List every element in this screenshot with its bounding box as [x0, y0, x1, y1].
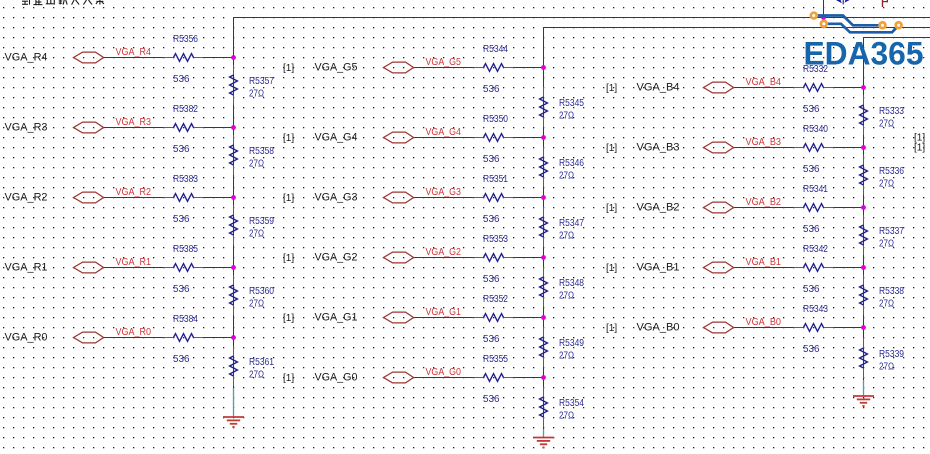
svg-text:VGA_G2: VGA_G2 [426, 246, 462, 258]
svg-text:VGA_G3: VGA_G3 [426, 186, 462, 198]
svg-text:R5353: R5353 [483, 234, 508, 245]
svg-text:27Ω: 27Ω [879, 362, 894, 373]
svg-text:R5338: R5338 [879, 286, 904, 297]
svg-text:536: 536 [483, 84, 500, 95]
svg-text:536: 536 [173, 144, 190, 155]
svg-text:R5346: R5346 [559, 158, 584, 169]
svg-text:536: 536 [803, 164, 820, 175]
svg-text:27Ω: 27Ω [559, 111, 574, 122]
svg-text:VGA_R4: VGA_R4 [116, 46, 152, 58]
svg-text:536: 536 [173, 354, 190, 365]
svg-text:27Ω: 27Ω [249, 229, 264, 240]
svg-text:R5351: R5351 [483, 174, 508, 185]
svg-text:[1]: [1] [283, 313, 294, 324]
svg-text:536: 536 [483, 154, 500, 165]
svg-text:VGA_G0: VGA_G0 [426, 366, 462, 378]
svg-text:[1]: [1] [606, 203, 617, 214]
svg-text:R5341: R5341 [803, 184, 828, 195]
svg-text:VGA_R3: VGA_R3 [5, 121, 48, 133]
svg-text:[1]: [1] [283, 373, 294, 384]
svg-text:536: 536 [173, 214, 190, 225]
svg-text:27Ω: 27Ω [559, 231, 574, 242]
svg-text:[1]: [1] [606, 83, 617, 94]
svg-text:27Ω: 27Ω [879, 179, 894, 190]
svg-text:VGA_B0: VGA_B0 [637, 321, 680, 333]
svg-text:R5340: R5340 [803, 124, 828, 135]
svg-text:R5342: R5342 [803, 244, 828, 255]
svg-text:27Ω: 27Ω [249, 89, 264, 100]
svg-text:[1]: [1] [914, 143, 925, 154]
svg-text:27Ω: 27Ω [559, 171, 574, 182]
svg-text:VGA_G1: VGA_G1 [315, 311, 358, 323]
svg-text:VGA_R1: VGA_R1 [5, 261, 48, 273]
svg-text:VGA_R3: VGA_R3 [116, 116, 152, 128]
svg-text:R5336: R5336 [879, 166, 904, 177]
svg-text:[1]: [1] [283, 253, 294, 264]
svg-text:R5339: R5339 [879, 349, 904, 360]
svg-text:R5348: R5348 [559, 278, 584, 289]
svg-text:536: 536 [803, 224, 820, 235]
svg-text:R5384: R5384 [173, 314, 198, 325]
svg-text:R5350: R5350 [483, 114, 508, 125]
svg-text:VGA_R1: VGA_R1 [116, 256, 152, 268]
svg-text:VGA_R0: VGA_R0 [5, 331, 48, 343]
svg-text:[1]: [1] [606, 263, 617, 274]
svg-text:27Ω: 27Ω [559, 411, 574, 422]
svg-text:VGA_B4: VGA_B4 [746, 76, 782, 88]
svg-text:R5382: R5382 [173, 104, 198, 115]
svg-text:R5358: R5358 [249, 146, 274, 157]
svg-text:R5383: R5383 [173, 174, 198, 185]
svg-text:VGA_R4: VGA_R4 [5, 51, 48, 63]
svg-text:VGA_B1: VGA_B1 [746, 256, 782, 268]
svg-text:R5360: R5360 [249, 286, 274, 297]
svg-text:R5359: R5359 [249, 216, 274, 227]
svg-text:27Ω: 27Ω [879, 299, 894, 310]
svg-text:R5352: R5352 [483, 294, 508, 305]
svg-text:VGA_G0: VGA_G0 [315, 371, 358, 383]
svg-text:R5354: R5354 [559, 398, 584, 409]
svg-text:R5356: R5356 [173, 34, 198, 45]
svg-text:VGA_B4: VGA_B4 [637, 81, 680, 93]
svg-text:[1]: [1] [283, 193, 294, 204]
svg-text:VGA_B2: VGA_B2 [746, 196, 782, 208]
svg-text:536: 536 [483, 394, 500, 405]
svg-text:[1]: [1] [606, 143, 617, 154]
svg-text:536: 536 [803, 344, 820, 355]
svg-text:VGA_G4: VGA_G4 [426, 126, 462, 138]
svg-text:R5332: R5332 [803, 64, 828, 75]
svg-text:536: 536 [803, 104, 820, 115]
svg-text:R5357: R5357 [249, 76, 274, 87]
svg-text:27Ω: 27Ω [249, 299, 264, 310]
svg-text:VGA_B3: VGA_B3 [746, 136, 782, 148]
svg-text:VGA_G1: VGA_G1 [426, 306, 462, 318]
svg-text:VGA_G5: VGA_G5 [315, 61, 358, 73]
svg-text:R5385: R5385 [173, 244, 198, 255]
svg-text:VGA_G5: VGA_G5 [426, 56, 462, 68]
svg-text:[1]: [1] [283, 133, 294, 144]
svg-text:VGA_G4: VGA_G4 [315, 131, 358, 143]
svg-text:R5344: R5344 [483, 44, 508, 55]
svg-text:27Ω: 27Ω [879, 119, 894, 130]
svg-text:27Ω: 27Ω [559, 291, 574, 302]
svg-text:R5345: R5345 [559, 98, 584, 109]
svg-text:536: 536 [173, 284, 190, 295]
svg-text:VGA_G2: VGA_G2 [315, 251, 358, 263]
svg-text:R5333: R5333 [879, 106, 904, 117]
svg-text:R5349: R5349 [559, 338, 584, 349]
svg-text:27Ω: 27Ω [879, 239, 894, 250]
svg-text:VGA_R2: VGA_R2 [5, 191, 48, 203]
svg-text:536: 536 [483, 334, 500, 345]
svg-text:27Ω: 27Ω [559, 351, 574, 362]
svg-text:VGA_B3: VGA_B3 [637, 141, 680, 153]
svg-text:R5343: R5343 [803, 304, 828, 315]
svg-text:536: 536 [483, 274, 500, 285]
svg-text:27Ω: 27Ω [249, 370, 264, 381]
svg-text:VGA_G3: VGA_G3 [315, 191, 358, 203]
svg-text:VGA_B2: VGA_B2 [637, 201, 680, 213]
svg-text:536: 536 [803, 284, 820, 295]
svg-text:536: 536 [483, 214, 500, 225]
svg-text:27Ω: 27Ω [249, 159, 264, 170]
svg-text:VGA_B0: VGA_B0 [746, 316, 782, 328]
svg-text:536: 536 [173, 74, 190, 85]
svg-text:R5361: R5361 [249, 357, 274, 368]
svg-text:R5347: R5347 [559, 218, 584, 229]
svg-text:R5355: R5355 [483, 354, 508, 365]
svg-text:[1]: [1] [606, 323, 617, 334]
svg-text:VGA_R0: VGA_R0 [116, 326, 152, 338]
svg-text:R5337: R5337 [879, 226, 904, 237]
svg-text:VGA_B1: VGA_B1 [637, 261, 680, 273]
svg-text:VGA_R2: VGA_R2 [116, 186, 152, 198]
svg-text:[1]: [1] [283, 63, 294, 74]
